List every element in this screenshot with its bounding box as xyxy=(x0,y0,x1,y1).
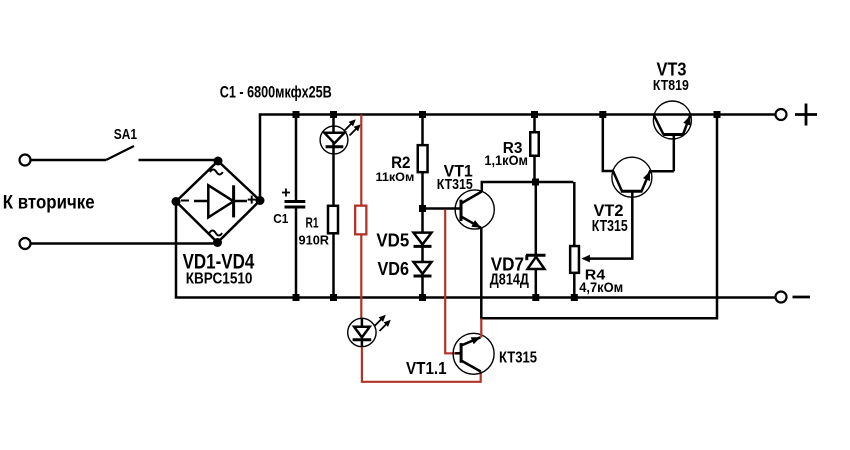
junction bottom bus VD6 xyxy=(419,294,426,301)
junction R3 bottom xyxy=(532,179,539,186)
node bridge left xyxy=(172,197,181,206)
terminal - xyxy=(776,292,787,303)
wire xyxy=(31,159,106,162)
junction top bus R2 xyxy=(419,111,426,118)
resistor R2 xyxy=(418,145,428,172)
svg-text:1,1кОм: 1,1кОм xyxy=(484,153,528,168)
label - xyxy=(793,296,811,299)
wire xyxy=(332,233,335,297)
diode VD6 xyxy=(414,262,432,276)
LED HL2 xyxy=(348,315,391,347)
transistor VT3 xyxy=(653,101,691,139)
wire emitter VT1 xyxy=(481,115,717,319)
transistor VT2 xyxy=(612,157,652,197)
svg-text:С1: С1 xyxy=(273,211,288,226)
svg-text:SA1: SA1 xyxy=(114,126,137,143)
resistor R3 xyxy=(530,132,539,156)
wire xyxy=(535,182,538,255)
wire xyxy=(535,269,538,298)
svg-text:VT3: VT3 xyxy=(657,58,687,79)
svg-text:R1: R1 xyxy=(306,216,319,232)
svg-text:Д814Д: Д814Д xyxy=(490,271,529,288)
terminal X1 xyxy=(20,155,31,166)
transistor VT1 xyxy=(455,190,494,229)
junction bottom bus R4 xyxy=(571,294,578,301)
wire red xyxy=(362,347,481,382)
svg-text:11кОм: 11кОм xyxy=(376,170,415,184)
wire bottom bus xyxy=(175,296,776,299)
wire base VT1 xyxy=(423,207,462,210)
resistor (red) xyxy=(355,206,366,235)
junction top bus C1 xyxy=(293,111,300,118)
capacitor C1 xyxy=(282,115,305,298)
svg-text:КТ315: КТ315 xyxy=(592,218,628,235)
wire top bus xyxy=(259,113,776,116)
wire xyxy=(421,172,424,233)
svg-text:VD5: VD5 xyxy=(376,231,409,251)
label + xyxy=(795,104,817,126)
node bridge right xyxy=(256,196,265,205)
wire red xyxy=(360,235,362,320)
node bridge bottom xyxy=(213,238,222,247)
node bridge top xyxy=(214,157,223,166)
wire red base VT1.1 xyxy=(445,210,456,354)
wire xyxy=(421,276,424,298)
svg-text:4,7кОм: 4,7кОм xyxy=(579,280,623,295)
svg-text:VT1.1: VT1.1 xyxy=(406,358,447,378)
junction top bus out xyxy=(714,111,721,118)
svg-text:С1 - 6800мкфх25В: С1 - 6800мкфх25В xyxy=(220,83,332,102)
wire xyxy=(31,242,218,245)
svg-text:910R: 910R xyxy=(299,233,330,248)
wire R4 branch xyxy=(573,182,576,246)
wire xyxy=(533,156,536,183)
wire xyxy=(175,202,178,298)
resistor R1 xyxy=(328,206,338,234)
wire VT3 base xyxy=(673,135,676,172)
wire VT2 branch xyxy=(603,115,614,172)
wire red branch xyxy=(360,115,362,206)
junction top bus VT2 xyxy=(599,111,606,118)
wire R2 branch xyxy=(421,115,424,146)
junction top bus R1 xyxy=(330,111,337,118)
terminal X2 xyxy=(20,238,31,249)
junction bottom bus R1 xyxy=(330,294,337,301)
wire red emitter VT1.1 xyxy=(480,318,482,337)
wire xyxy=(421,246,424,262)
wire R1 branch xyxy=(332,115,335,206)
wire R4 wiper xyxy=(588,191,632,258)
wire xyxy=(259,115,262,201)
transistor VT1.1 xyxy=(453,333,494,374)
wire collector VT1 xyxy=(482,182,574,192)
junction R2 base xyxy=(419,205,426,212)
wire xyxy=(573,273,576,298)
diode VD5 xyxy=(414,233,432,247)
LED HL1 xyxy=(320,119,361,154)
svg-text:К вторичке: К вторичке xyxy=(3,191,95,213)
svg-text:КТ819: КТ819 xyxy=(653,78,689,94)
svg-text:КТ315: КТ315 xyxy=(437,177,473,193)
wire R3 branch xyxy=(533,115,536,133)
wire xyxy=(139,159,219,162)
junction bottom bus C1 xyxy=(293,294,300,301)
wire xyxy=(649,170,674,173)
bridge rectifier VD1-VD4 xyxy=(176,161,260,243)
svg-text:КВРС1510: КВРС1510 xyxy=(186,270,253,287)
svg-text:КТ315: КТ315 xyxy=(499,349,537,366)
zener diode VD7 xyxy=(526,255,546,269)
junction bottom bus VD7 xyxy=(532,294,539,301)
terminal + xyxy=(776,109,787,120)
switch SA1 xyxy=(106,146,134,160)
svg-text:VD6: VD6 xyxy=(378,259,410,279)
resistor R4 xyxy=(570,246,579,273)
junction top bus R3 xyxy=(531,111,538,118)
